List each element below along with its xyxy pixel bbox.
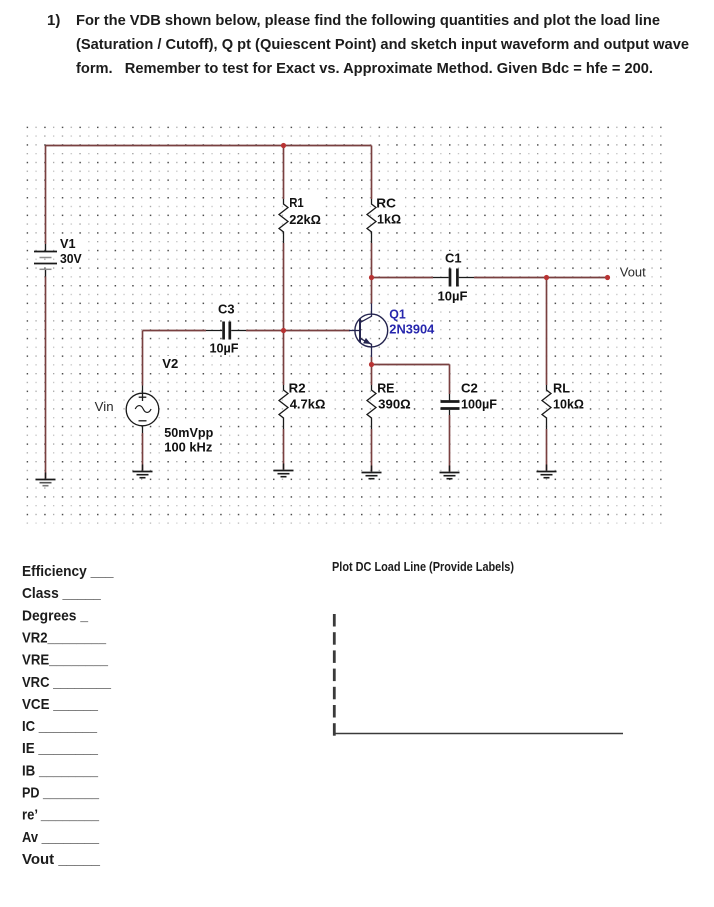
svg-text:10µF: 10µF: [210, 341, 239, 356]
source V2: [126, 386, 159, 434]
capacitor C3: [206, 322, 246, 340]
wire RE bottom to ground: [371, 429, 373, 472]
wire RL bottom to ground: [546, 429, 548, 471]
wire collector stub: [371, 278, 373, 304]
svg-text:Vout _____: Vout _____: [22, 851, 101, 868]
wire R2 top: [283, 331, 285, 386]
header problem text: [47, 12, 689, 77]
svg-text:V1: V1: [60, 236, 76, 251]
svg-text:4.7kΩ: 4.7kΩ: [290, 397, 326, 412]
label background clearings: [58, 194, 648, 454]
answer blanks list: [22, 563, 114, 868]
wire base rail left: [143, 330, 207, 332]
svg-text:re’ ________: re’ ________: [22, 807, 100, 824]
svg-text:1): 1): [47, 12, 60, 29]
svg-text:V2: V2: [162, 356, 178, 371]
svg-text:2N3904: 2N3904: [389, 322, 435, 337]
wire V1 bottom to ground: [45, 277, 47, 479]
svg-text:10kΩ: 10kΩ: [553, 397, 584, 412]
svg-text:RC: RC: [376, 196, 396, 211]
svg-text:Plot DC Load Line (Provide Lab: Plot DC Load Line (Provide Labels): [332, 560, 514, 574]
svg-text:IE ________: IE ________: [22, 740, 99, 757]
wire R2 bottom to ground: [283, 429, 285, 470]
node collector: [369, 275, 374, 280]
svg-text:10µF: 10µF: [438, 289, 468, 304]
wire V2 top: [142, 331, 144, 386]
svg-text:RE: RE: [377, 381, 395, 396]
svg-text:390Ω: 390Ω: [378, 397, 411, 412]
node Vout terminal: [605, 275, 610, 280]
svg-text:IC ________: IC ________: [22, 718, 98, 735]
resistor R1: [279, 199, 288, 243]
svg-text:Class _____: Class _____: [22, 585, 101, 602]
node emitter: [369, 362, 374, 367]
svg-text:VR2________: VR2________: [22, 630, 107, 647]
wire C2 bottom to ground: [449, 415, 451, 472]
load line plot y-axis dashes: [333, 614, 336, 736]
svg-text:50mVpp: 50mVpp: [164, 425, 213, 440]
wire V1 top: [45, 146, 47, 245]
resistor R2: [279, 385, 288, 429]
svg-text:C2: C2: [461, 381, 478, 396]
wire C2 top: [449, 365, 451, 395]
wire top rail: [46, 145, 372, 147]
ground V1: [36, 480, 56, 486]
wire RL node down: [546, 278, 548, 386]
svg-text:VRC ________: VRC ________: [22, 674, 112, 691]
svg-text:RL: RL: [553, 381, 570, 396]
node junction R1 top: [281, 143, 286, 148]
svg-text:R1: R1: [289, 195, 304, 210]
ground R2: [274, 471, 294, 477]
wire halo overlay: [46, 146, 608, 479]
svg-text:VCE ______: VCE ______: [22, 696, 99, 713]
ground lead stubs: [46, 464, 547, 479]
ground C2: [440, 473, 460, 479]
wire collector node to C1: [372, 277, 434, 279]
svg-text:Av ________: Av ________: [22, 829, 100, 846]
node base: [281, 328, 286, 333]
svg-text:R2: R2: [289, 380, 306, 395]
svg-text:VRE________: VRE________: [22, 652, 109, 669]
ground RE: [362, 473, 382, 479]
ground V2: [133, 472, 153, 478]
wire R1 bottom to base node: [283, 243, 285, 331]
capacitor C2: [441, 394, 460, 415]
wire emitter stub: [371, 357, 373, 365]
schematic dotted grid background: [27, 127, 662, 524]
svg-text:form. Remember to test for E: form. Remember to test for Exact vs. App…: [76, 60, 653, 77]
svg-text:30V: 30V: [60, 251, 82, 266]
ground RL: [537, 472, 557, 478]
svg-text:Efficiency ___: Efficiency ___: [22, 563, 114, 580]
svg-text:Degrees _: Degrees _: [22, 607, 89, 624]
resistor RE: [367, 385, 376, 429]
svg-text:C3: C3: [218, 302, 235, 317]
wire C1 to Vout: [474, 277, 608, 279]
svg-text:Vin: Vin: [95, 399, 114, 414]
svg-text:IB ________: IB ________: [22, 762, 99, 779]
svg-text:(Saturation / Cutoff), Q pt (Q: (Saturation / Cutoff), Q pt (Quiescent P…: [76, 36, 689, 53]
wire RC top: [371, 146, 373, 200]
capacitor C1: [433, 269, 474, 287]
load line plot x-axis: [335, 733, 624, 735]
svg-text:100 kHz: 100 kHz: [164, 440, 212, 455]
wire emitter node to C2: [372, 364, 450, 366]
resistor RL: [542, 385, 551, 429]
wire base rail right: [246, 330, 350, 332]
transistor Q1: [349, 304, 388, 358]
svg-text:22kΩ: 22kΩ: [289, 212, 321, 227]
resistor RC: [367, 199, 376, 243]
battery V1: [34, 244, 57, 277]
svg-text:100µF: 100µF: [461, 397, 497, 412]
svg-text:Vout: Vout: [620, 265, 646, 280]
svg-text:Q1: Q1: [389, 307, 406, 322]
wire RE top: [371, 365, 373, 386]
wire R1 top: [283, 146, 285, 200]
node RL tap: [544, 275, 549, 280]
svg-text:1kΩ: 1kΩ: [377, 212, 401, 227]
wire RC bottom to collector node: [371, 243, 373, 278]
wire V2 bottom to ground: [142, 433, 144, 471]
svg-text:PD ________: PD ________: [22, 785, 100, 802]
svg-text:For the VDB shown below, pleas: For the VDB shown below, please find the…: [76, 12, 660, 29]
svg-text:C1: C1: [445, 251, 462, 266]
